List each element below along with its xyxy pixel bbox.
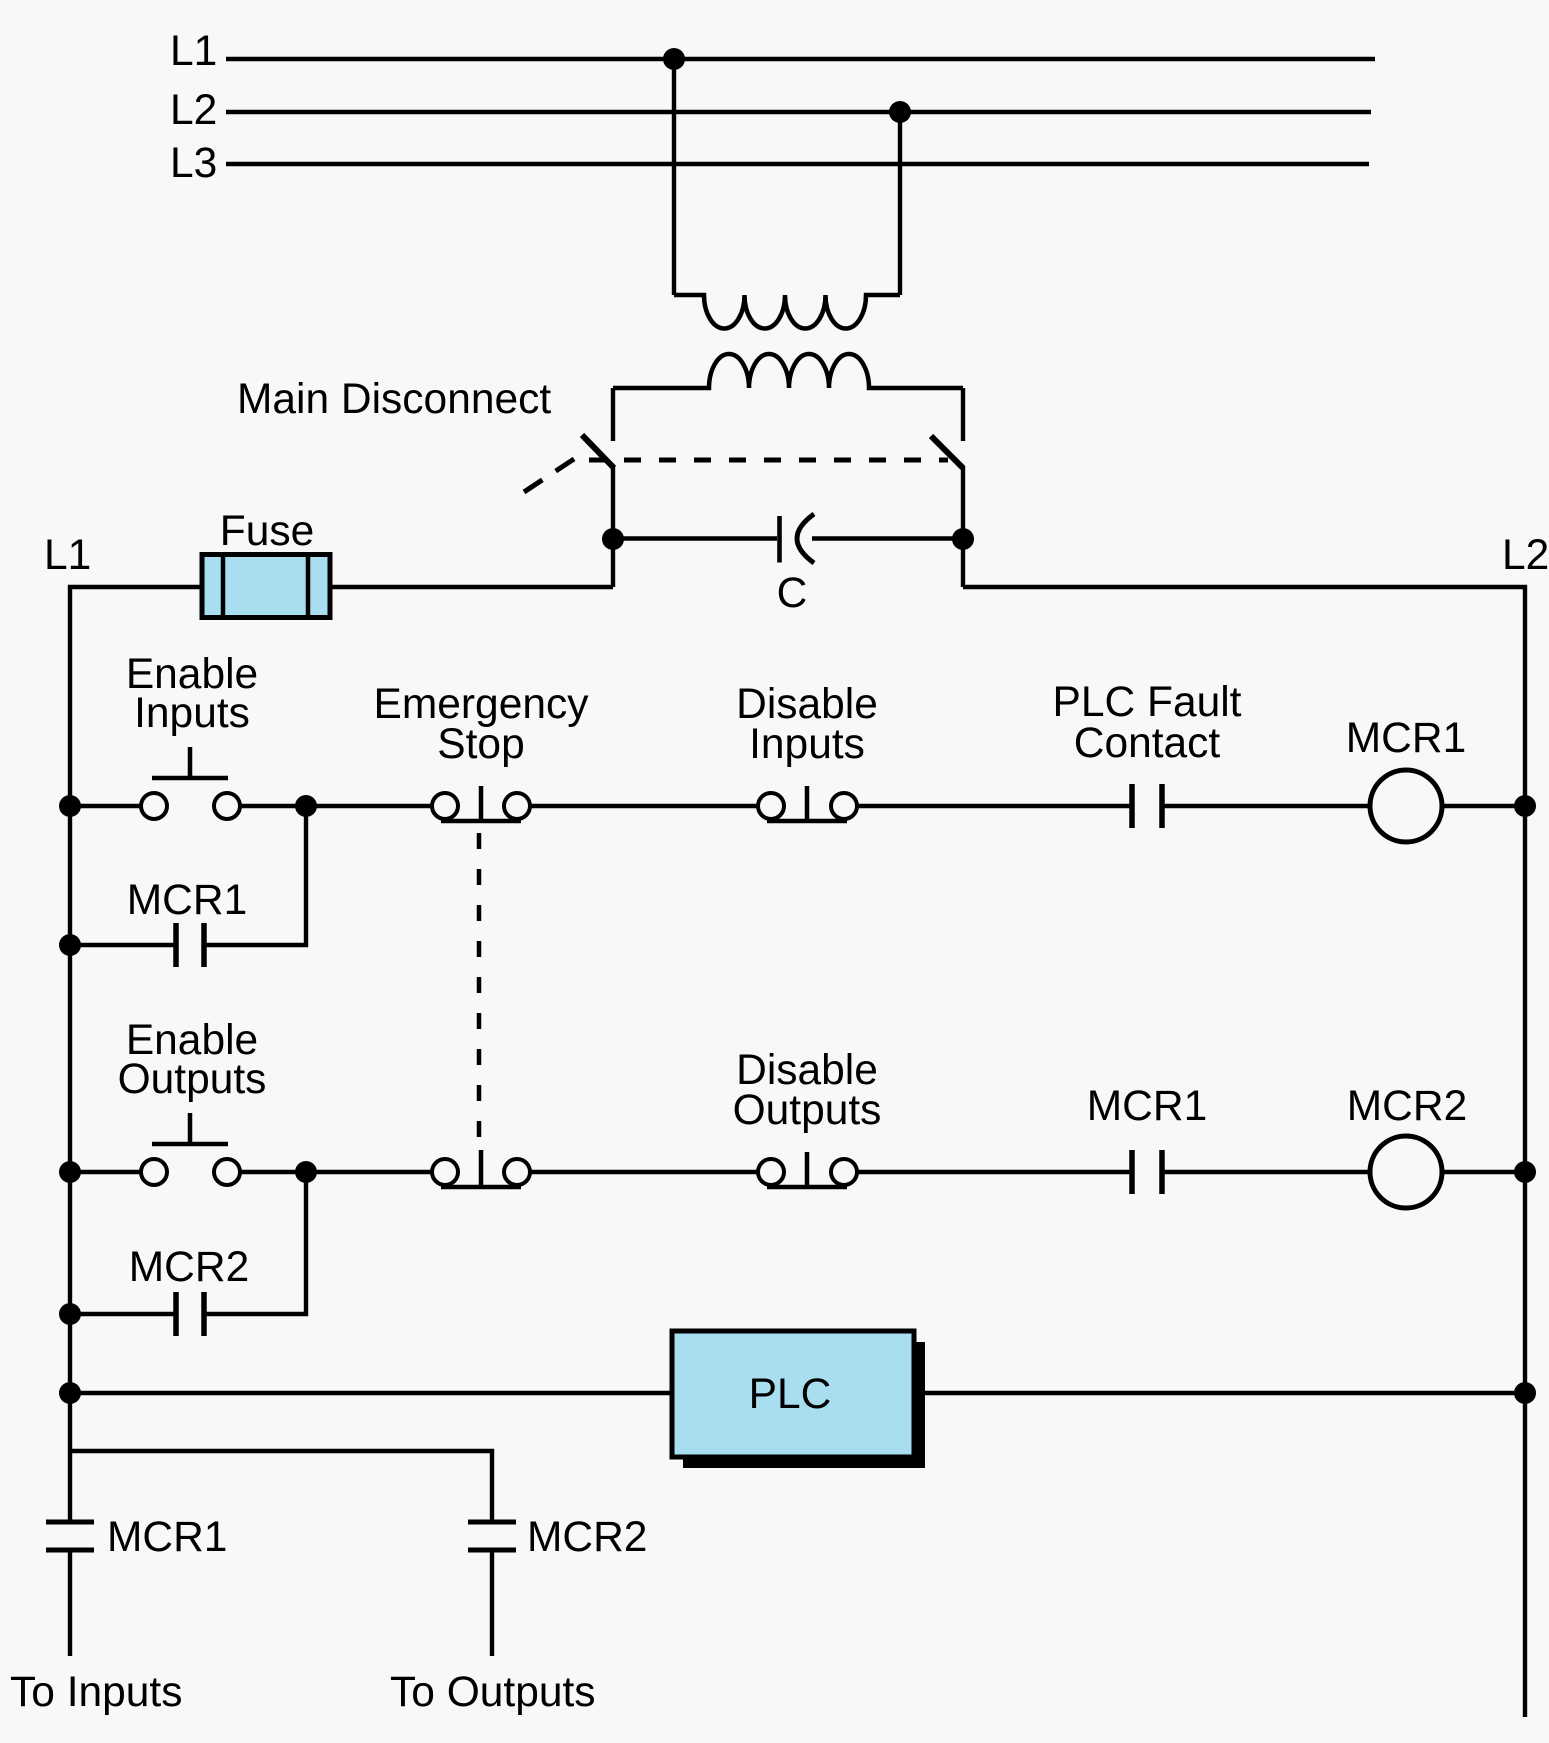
- contact MCR2 master (to outputs): [468, 1522, 516, 1550]
- wire rung1 seg4: [857, 804, 1132, 808]
- svg-text:MCR1: MCR1: [127, 877, 247, 924]
- wire to capacitor left: [613, 536, 777, 540]
- junction seal2 left rail: [59, 1303, 81, 1325]
- wire rung1 seg6: [1442, 804, 1525, 808]
- junction right of capacitor: [952, 528, 974, 550]
- wire MCR2 master lower lead: [490, 1550, 494, 1656]
- svg-text:Fuse: Fuse: [220, 508, 314, 555]
- svg-text:MCR2: MCR2: [1347, 1083, 1467, 1130]
- label Emergency Stop: [374, 681, 590, 768]
- disconnect switch right lower lead: [961, 466, 965, 587]
- coil MCR2: [1370, 1136, 1442, 1208]
- label Enable Outputs: [118, 1017, 267, 1103]
- wire transformer primary right lead: [898, 112, 902, 295]
- svg-text:L3: L3: [170, 140, 217, 187]
- svg-text:MCR2: MCR2: [129, 1244, 249, 1291]
- wire rung2 seg2: [240, 1170, 432, 1174]
- wire L3: [226, 162, 1369, 166]
- disconnect switch right blade: [931, 436, 963, 468]
- wire seal2 seg1: [70, 1312, 176, 1316]
- svg-text:Outputs: Outputs: [118, 1056, 267, 1103]
- dashed mechanical link emergency stop: [477, 833, 482, 1147]
- label Enable Inputs: [126, 651, 258, 737]
- disconnect switch left upper lead: [611, 388, 615, 441]
- wire rung3 seg1: [70, 1391, 672, 1395]
- wire rung2 seg6: [1442, 1170, 1525, 1174]
- svg-text:To Outputs: To Outputs: [390, 1669, 596, 1716]
- svg-text:Inputs: Inputs: [134, 690, 250, 737]
- svg-text:Main Disconnect: Main Disconnect: [237, 376, 551, 423]
- disconnect switch right upper lead: [961, 388, 965, 441]
- wire rung2 seg4: [857, 1170, 1132, 1174]
- junction rung3 left rail: [59, 1382, 81, 1404]
- svg-text:Stop: Stop: [437, 721, 524, 768]
- svg-text:Contact: Contact: [1074, 720, 1221, 767]
- pushbutton Disable Inputs (NC): [758, 786, 857, 821]
- wire seal1 to rung1: [204, 806, 306, 945]
- junction seal1 left rail: [59, 934, 81, 956]
- wire rung1 seg2: [240, 804, 432, 808]
- junction on L1: [663, 48, 685, 70]
- junction rung2 right rail: [1514, 1161, 1536, 1183]
- svg-text:L2: L2: [170, 87, 217, 134]
- contact MCR1 master (to inputs): [46, 1522, 94, 1550]
- wire rung2 seg1: [70, 1170, 141, 1174]
- wire MCR1 master lower lead: [68, 1550, 72, 1656]
- wire from capacitor right: [812, 536, 963, 540]
- pushbutton Emergency Stop (NC): [432, 786, 530, 821]
- transformer T1 secondary winding: [613, 354, 963, 388]
- junction left of capacitor: [602, 528, 624, 550]
- wire branch to MCR2 master contact: [70, 1451, 492, 1522]
- capacitor C left plate: [777, 516, 782, 563]
- junction rung1 right rail: [1514, 795, 1536, 817]
- label Disable Outputs: [733, 1047, 882, 1134]
- svg-text:PLC Fault: PLC Fault: [1053, 679, 1242, 726]
- contact PLC Fault (NO): [1132, 784, 1162, 828]
- junction rung2 seal-in: [295, 1161, 317, 1183]
- wire seal2 to rung2: [204, 1172, 306, 1314]
- wire rung1 seg3: [530, 804, 758, 808]
- disconnect switch left blade: [582, 435, 614, 468]
- PLC block: [672, 1331, 914, 1457]
- wire rung3 seg2: [914, 1391, 1525, 1395]
- svg-text:MCR1: MCR1: [107, 1514, 227, 1561]
- disconnect switch left lower lead: [611, 466, 615, 587]
- disconnect mechanical linkage (dashed): [589, 458, 948, 463]
- junction on L2: [889, 101, 911, 123]
- junction rung2 left rail: [59, 1161, 81, 1183]
- svg-text:L2: L2: [1502, 532, 1549, 579]
- pushbutton Enable Outputs (NO): [141, 1113, 240, 1185]
- junction rung1 seal-in: [295, 795, 317, 817]
- label Disable Inputs: [736, 681, 878, 768]
- capacitor C right curved plate: [797, 514, 814, 563]
- coil MCR1: [1370, 770, 1442, 842]
- junction rung3 right rail: [1514, 1382, 1536, 1404]
- svg-text:MCR1: MCR1: [1346, 715, 1466, 762]
- wire L1: [226, 57, 1375, 61]
- svg-text:MCR2: MCR2: [527, 1514, 647, 1561]
- svg-text:L1: L1: [170, 28, 217, 75]
- svg-text:Outputs: Outputs: [733, 1087, 882, 1134]
- label PLC Fault Contact: [1053, 679, 1242, 767]
- wire L2: [226, 110, 1371, 114]
- svg-text:L1: L1: [44, 532, 91, 579]
- wire rail top-right: [963, 587, 1525, 1717]
- wire fuse to disconnect: [330, 585, 613, 589]
- contact MCR2 seal-in (NO): [176, 1292, 204, 1336]
- fuse F1: [202, 555, 330, 618]
- svg-text:MCR1: MCR1: [1087, 1083, 1207, 1130]
- wire rung2 seg3: [530, 1170, 758, 1174]
- pushbutton Disable Outputs (NC): [758, 1152, 857, 1187]
- wire transformer primary left lead: [672, 59, 676, 295]
- wire rung1 seg5: [1162, 804, 1370, 808]
- pushbutton Enable Inputs (NO): [141, 747, 240, 819]
- svg-text:C: C: [777, 570, 808, 617]
- wire rung2 seg5: [1162, 1170, 1370, 1174]
- PLC block shadow: [683, 1342, 925, 1468]
- wire seal1 seg1: [70, 943, 176, 947]
- svg-text:To Inputs: To Inputs: [10, 1669, 182, 1716]
- transformer T1 primary winding: [674, 295, 900, 329]
- contact MCR1 (NO) rung2: [1132, 1150, 1162, 1194]
- junction rung1 left rail: [59, 795, 81, 817]
- disconnect open-position phantom (dashed): [524, 455, 580, 492]
- wire rung1 seg1: [70, 804, 141, 808]
- svg-text:Inputs: Inputs: [749, 721, 865, 768]
- contact MCR1 seal-in (NO): [176, 923, 204, 967]
- svg-text:PLC: PLC: [749, 1371, 832, 1418]
- emergency stop second contact (NC): [432, 1150, 530, 1187]
- wire rail top-left to fuse: [70, 587, 202, 1522]
